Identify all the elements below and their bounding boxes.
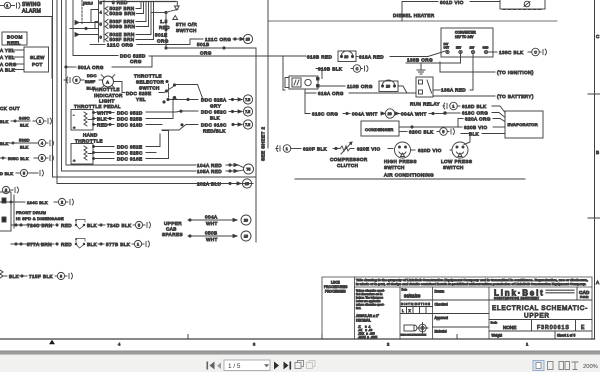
wire 110B ORG fuse 20 xyxy=(319,80,415,93)
svg-text:Unless otherwise speci-: Unless otherwise speci- xyxy=(356,289,385,293)
svg-text:fied.: fied. xyxy=(356,306,361,310)
svg-text:501B: 501B xyxy=(197,42,210,47)
svg-text:C: C xyxy=(534,50,537,54)
svg-text:618D BLK: 618D BLK xyxy=(462,104,487,109)
svg-text:BLK: BLK xyxy=(9,274,20,279)
svg-text:UPPER: UPPER xyxy=(164,221,182,226)
svg-text:1.5: 1.5 xyxy=(160,19,168,24)
wire 138A RED xyxy=(433,54,473,93)
svg-text:-: - xyxy=(73,112,75,117)
prev page button xyxy=(217,363,221,370)
svg-text:1: 1 xyxy=(39,119,41,123)
svg-text:5: 5 xyxy=(442,130,444,134)
weight row xyxy=(489,331,592,339)
svg-text:ANGULAR ± 1°: ANGULAR ± 1° xyxy=(356,314,380,318)
svg-text:OUT: OUT xyxy=(444,46,450,50)
svg-text:.X ± .1: .X ± .1 xyxy=(358,325,371,329)
svg-text:DISTRIBUTION: DISTRIBUTION xyxy=(401,302,430,306)
wire 1.5 RED xyxy=(159,13,170,49)
diesel heater glow plug box xyxy=(500,0,545,10)
svg-text:801D VIO: 801D VIO xyxy=(440,0,464,5)
svg-text:505C BLK: 505C BLK xyxy=(8,156,29,161)
svg-text:619A ORG: 619A ORG xyxy=(318,91,344,96)
center fold wire xyxy=(267,0,269,148)
svg-text:COMPRESSOR: COMPRESSOR xyxy=(330,157,368,162)
wire to pin row C xyxy=(75,33,99,37)
svg-text:620A ORG: 620A ORG xyxy=(465,117,491,122)
svg-text:CAB: CAB xyxy=(166,227,177,232)
wire 503F BRN lower xyxy=(105,2,154,42)
svg-text:105A RED: 105A RED xyxy=(197,169,222,174)
svg-text:POT: POT xyxy=(32,62,43,67)
boom reel enclosure wire xyxy=(0,17,52,79)
svg-text:+: + xyxy=(73,158,76,163)
svg-text:577B BLK: 577B BLK xyxy=(106,242,131,247)
wire 577A BRN resistor 577B BLK xyxy=(11,238,149,248)
wire 501E ORG xyxy=(155,33,169,50)
svg-text:6 RED: 6 RED xyxy=(112,0,128,5)
svg-text:138C BLK: 138C BLK xyxy=(499,50,524,55)
svg-text:Weight: Weight xyxy=(492,334,502,338)
svg-text:5: 5 xyxy=(138,223,140,227)
slew pot box xyxy=(24,47,49,72)
svg-text:WHT: WHT xyxy=(206,221,218,226)
wire 202A BLU xyxy=(57,179,252,188)
svg-text:3: 3 xyxy=(100,0,103,5)
svg-text:5: 5 xyxy=(23,171,25,175)
svg-text:104A RED: 104A RED xyxy=(197,163,222,168)
snapshot tool icon xyxy=(295,361,304,369)
svg-text:A BLK: A BLK xyxy=(0,68,16,73)
svg-text:525F: 525F xyxy=(85,79,96,84)
wire DDC 916C RED/BLK xyxy=(162,120,253,134)
svg-text:BLK: BLK xyxy=(87,242,98,247)
svg-text:DDC 952D: DDC 952D xyxy=(117,111,143,116)
next page button xyxy=(274,362,279,370)
single page view icon active xyxy=(533,361,544,371)
svg-text:FRONT DRUM: FRONT DRUM xyxy=(16,210,46,215)
svg-text:RED: RED xyxy=(61,242,72,247)
svg-text:DDC 916C: DDC 916C xyxy=(201,123,227,128)
svg-text:in whole or in part, of design: in whole or in part, of design and detai… xyxy=(356,282,586,286)
wire 618C ORG right xyxy=(305,93,505,118)
fit width icon xyxy=(572,362,579,370)
svg-text:DDC 916E: DDC 916E xyxy=(117,157,143,162)
switch 5TH O/R xyxy=(151,2,179,20)
selector switch contacts xyxy=(163,80,176,103)
svg-text:SWITCH: SWITCH xyxy=(139,86,160,91)
bus wire 1 xyxy=(52,0,54,177)
relay box left edge xyxy=(0,192,14,231)
svg-text:BLK: BLK xyxy=(0,141,9,146)
svg-text:DDC 952C: DDC 952C xyxy=(201,110,227,115)
wire 503F BRN xyxy=(105,2,146,24)
svg-text:WHT: WHT xyxy=(97,111,109,116)
svg-text:below are applicable: below are applicable xyxy=(356,299,381,303)
wire 618B RED xyxy=(283,55,333,91)
svg-text:BLK: BLK xyxy=(469,132,480,137)
svg-text:538D: 538D xyxy=(19,138,30,143)
scale row xyxy=(489,320,592,332)
svg-text:20: 20 xyxy=(244,218,248,222)
svg-text:004A WHT: 004A WHT xyxy=(352,112,378,117)
svg-text:D BLK: D BLK xyxy=(0,171,13,176)
toolbar background xyxy=(0,355,600,372)
svg-text:AIR CONDITIONING: AIR CONDITIONING xyxy=(384,173,434,178)
svg-text:CLUTCH: CLUTCH xyxy=(337,163,358,168)
svg-text:618C ORG: 618C ORG xyxy=(312,112,338,117)
svg-text:ALARM: ALARM xyxy=(22,9,41,15)
wire 004A WHT spare xyxy=(188,215,251,227)
ground run relay coil xyxy=(417,63,425,74)
wire 503G BRN xyxy=(105,2,149,29)
wire DDC 525C xyxy=(95,151,157,156)
svg-text:SELECTOR: SELECTOR xyxy=(136,80,165,85)
svg-text:SPARES: SPARES xyxy=(162,232,183,237)
wire 620F BLK xyxy=(303,147,340,152)
svg-text:DDC 525D: DDC 525D xyxy=(120,54,146,59)
svg-text:C: C xyxy=(356,67,359,71)
svg-text:4: 4 xyxy=(41,141,43,145)
svg-text:620F BLK: 620F BLK xyxy=(303,147,328,152)
wire 121C ORG xyxy=(90,34,253,47)
svg-text:6: 6 xyxy=(100,35,103,40)
wire DDC 525A GRY xyxy=(167,95,253,109)
see sheet 2 border xyxy=(255,48,257,242)
svg-text:NONE: NONE xyxy=(503,325,516,330)
wire 715F BLK xyxy=(0,270,72,280)
wire DDC 916E xyxy=(95,131,169,162)
wire 620E VIO xyxy=(357,147,393,152)
diesel heater top wire xyxy=(268,20,557,22)
svg-text:7.5: 7.5 xyxy=(245,98,250,102)
svg-text:RED: RED xyxy=(97,123,108,128)
svg-text:138B ORG: 138B ORG xyxy=(407,58,433,63)
svg-text:REEL: REEL xyxy=(7,41,21,46)
svg-text:503G BRN: 503G BRN xyxy=(110,24,136,29)
svg-text:004A WHT: 004A WHT xyxy=(401,112,427,117)
svg-text:BLK: BLK xyxy=(210,116,221,121)
page number input xyxy=(224,360,270,371)
svg-text:501E: 501E xyxy=(155,33,168,38)
wire BLK DDC 525B xyxy=(95,98,174,122)
svg-text:inches. The tolerances: inches. The tolerances xyxy=(356,296,384,300)
connector J1 bars xyxy=(99,0,105,42)
svg-text:A YEL: A YEL xyxy=(0,48,15,53)
wire DDC 525E YEL xyxy=(114,82,167,102)
svg-text:619B BLK: 619B BLK xyxy=(318,67,343,72)
wire 105A RED xyxy=(197,169,244,174)
wire 349C BLK xyxy=(0,116,51,128)
distribution cell xyxy=(400,302,489,314)
svg-text:Drawn: Drawn xyxy=(435,290,445,294)
svg-text:+: + xyxy=(73,125,76,130)
wire 619B BLK xyxy=(316,65,368,79)
svg-text:1 / 5: 1 / 5 xyxy=(228,363,241,370)
link-belt logo xyxy=(494,287,577,300)
wire 134C BLK xyxy=(0,198,73,205)
svg-text:004A: 004A xyxy=(205,215,218,220)
svg-text:LBCE: LBCE xyxy=(331,281,340,285)
lbce processes cell xyxy=(324,281,348,294)
fuse 20A heater xyxy=(338,51,356,62)
converter box xyxy=(441,28,493,57)
svg-text:UPPER: UPPER xyxy=(524,313,550,320)
svg-text:SWING: SWING xyxy=(22,2,41,8)
svg-text:1: 1 xyxy=(6,4,8,8)
svg-text:121C ORG: 121C ORG xyxy=(107,43,133,48)
run relay box xyxy=(416,77,433,97)
svg-text:5: 5 xyxy=(100,22,103,27)
frame bottom wire xyxy=(53,176,257,178)
tolerance note cell xyxy=(356,289,385,340)
svg-text:.XXX ± .005: .XXX ± .005 xyxy=(358,332,375,336)
svg-text:1: 1 xyxy=(286,147,288,151)
svg-text:X: X xyxy=(409,309,412,313)
swing alarm node 1 xyxy=(0,2,20,8)
sheet right border xyxy=(594,0,596,339)
svg-text:620E VIO: 620E VIO xyxy=(357,147,381,152)
svg-text:ORG: ORG xyxy=(157,39,169,44)
low press switch xyxy=(452,142,468,158)
svg-text:202A BLU: 202A BLU xyxy=(197,182,221,187)
svg-text:ORG: ORG xyxy=(130,59,142,64)
svg-text:ELECTRICAL SCHEMATIC-: ELECTRICAL SCHEMATIC- xyxy=(492,305,588,312)
svg-text:1: 1 xyxy=(452,104,454,108)
svg-text:138A RED: 138A RED xyxy=(441,88,466,93)
svg-text:BLK: BLK xyxy=(20,123,29,128)
svg-text:050B: 050B xyxy=(205,231,218,236)
wire stubs left of connector xyxy=(91,10,99,29)
svg-text:618B RED: 618B RED xyxy=(307,55,333,60)
revision triangle marker xyxy=(49,340,55,344)
svg-text:PROCESSES: PROCESSES xyxy=(325,290,346,294)
wire RED DDC 916D xyxy=(95,123,163,128)
svg-text:HAND: HAND xyxy=(83,133,98,138)
cad cell xyxy=(579,290,590,299)
wire 801D VIO xyxy=(402,0,500,21)
indicator lamp xyxy=(101,75,115,89)
bus wire 2 xyxy=(57,0,253,184)
wire to battery xyxy=(433,94,534,99)
wire to ignition xyxy=(440,62,534,75)
svg-text:DIESEL HEATER: DIESEL HEATER xyxy=(393,13,435,18)
svg-text:RUN RELAY: RUN RELAY xyxy=(410,102,440,107)
svg-text:15: 15 xyxy=(246,37,250,41)
title electrical schematic upper xyxy=(489,300,592,320)
confidence note text xyxy=(356,278,588,286)
svg-text:DDC 525C: DDC 525C xyxy=(117,151,143,156)
svg-text:3: 3 xyxy=(75,78,77,82)
svg-text:A ORG: A ORG xyxy=(0,62,17,67)
svg-text:THROTTLE PEDAL: THROTTLE PEDAL xyxy=(74,104,121,109)
svg-text:A: A xyxy=(106,79,109,84)
svg-text:KEY: KEY xyxy=(456,46,462,50)
connector node 1 compressor xyxy=(276,145,301,153)
svg-text:BLK: BLK xyxy=(20,145,29,150)
wire 050B WHT spare xyxy=(188,231,251,243)
svg-text:618C ORG: 618C ORG xyxy=(462,111,488,116)
title block outline xyxy=(322,277,592,339)
wire DDC 525F BLK xyxy=(85,73,103,91)
svg-text:502G BRN: 502G BRN xyxy=(110,11,136,16)
svg-text:6: 6 xyxy=(60,274,62,278)
last page button xyxy=(284,362,292,370)
evaporator box xyxy=(505,111,543,138)
wire 620D VIO xyxy=(411,148,453,153)
svg-text:.XX ± .06: .XX ± .06 xyxy=(358,328,373,332)
svg-text:4: 4 xyxy=(100,10,103,15)
svg-text:5: 5 xyxy=(41,156,43,160)
wire 104A RED xyxy=(197,163,254,174)
svg-text:SEE SHEET 2: SEE SHEET 2 xyxy=(261,127,266,161)
wire DDC 952E xyxy=(95,134,161,150)
svg-text:1: 1 xyxy=(137,242,139,246)
wire 502E BRN xyxy=(105,2,151,37)
svg-text:134C BLK: 134C BLK xyxy=(27,200,48,205)
svg-text:SWITCH: SWITCH xyxy=(176,28,197,33)
svg-text:Approval: Approval xyxy=(435,316,449,320)
wire 620A ORG xyxy=(458,117,505,128)
hand throttle box xyxy=(71,144,95,165)
wire 620C BLK xyxy=(399,128,454,136)
svg-text:7.5: 7.5 xyxy=(245,110,250,114)
svg-text:F3R0061S: F3R0061S xyxy=(537,325,570,331)
svg-text:715F BLK: 715F BLK xyxy=(29,274,54,279)
heater unit box xyxy=(285,76,319,89)
svg-text:501A ORG: 501A ORG xyxy=(78,65,104,70)
svg-text:THROTTLE: THROTTLE xyxy=(75,139,103,144)
svg-text:200%: 200% xyxy=(583,364,598,370)
wire WHT DDC 952D xyxy=(95,110,199,115)
svg-text:DDC: DDC xyxy=(87,73,97,78)
compressor clutch coil xyxy=(340,142,354,154)
svg-text:SLEW: SLEW xyxy=(30,55,45,60)
svg-text:THROTTLE: THROTTLE xyxy=(92,87,120,92)
svg-text:CK OUT: CK OUT xyxy=(0,106,20,111)
svg-text:A YEL: A YEL xyxy=(0,55,15,60)
wire BLK evaporator xyxy=(461,132,505,145)
svg-text:12V: 12V xyxy=(470,46,475,50)
svg-text:INDICATOR: INDICATOR xyxy=(94,93,123,98)
svg-text:SWITCH: SWITCH xyxy=(384,165,405,170)
svg-text:(TO BATTERY): (TO BATTERY) xyxy=(497,94,534,99)
wire 138B ORG xyxy=(406,54,461,63)
two page view icon xyxy=(559,362,570,370)
first page button xyxy=(207,362,215,370)
connector node 5 xyxy=(2,186,18,193)
bus top merge wire xyxy=(100,1,176,3)
svg-text:THIRD ANGLE PROJECTION: THIRD ANGLE PROJECTION xyxy=(401,334,427,337)
svg-text:ORG: ORG xyxy=(200,51,212,56)
throttle pedal box xyxy=(71,110,95,131)
wire 505C BLK xyxy=(0,154,53,161)
svg-text:DDC 525B: DDC 525B xyxy=(117,117,143,122)
high press switch xyxy=(395,142,411,158)
wire 501B ORG xyxy=(166,42,256,56)
wire D BLK xyxy=(0,169,43,176)
wire to pin row A xyxy=(75,21,99,25)
svg-text:15: 15 xyxy=(244,234,248,238)
svg-text:HI SPD & DISENGAGE: HI SPD & DISENGAGE xyxy=(16,216,64,221)
svg-text:unless otherwise speci-: unless otherwise speci- xyxy=(356,303,384,307)
svg-text:5TH O/R: 5TH O/R xyxy=(176,22,198,27)
zone tick marks xyxy=(188,335,457,340)
svg-text:PROCEDURES: PROCEDURES xyxy=(324,285,348,289)
svg-text:618A RED: 618A RED xyxy=(359,55,384,60)
svg-text:110B ORG: 110B ORG xyxy=(347,84,373,89)
svg-text:DDC 952E: DDC 952E xyxy=(117,145,143,150)
svg-text:349C: 349C xyxy=(19,116,30,121)
svg-text:Checked: Checked xyxy=(435,303,448,307)
third angle projection cell xyxy=(401,323,490,337)
svg-text:Scale: Scale xyxy=(491,321,498,325)
svg-text:LOW PRESS: LOW PRESS xyxy=(441,159,472,164)
svg-text:BOOM: BOOM xyxy=(7,35,23,40)
svg-text:L: L xyxy=(402,309,404,313)
date cell xyxy=(400,288,489,301)
wire 618A RED xyxy=(356,50,448,59)
svg-text:DECIMAL: DECIMAL xyxy=(356,319,371,323)
svg-text:20: 20 xyxy=(388,112,392,116)
svg-text:20: 20 xyxy=(344,55,348,59)
svg-text:CONDENSER: CONDENSER xyxy=(365,127,394,132)
wire selector to right xyxy=(176,85,203,100)
svg-text:fied dimensions are in: fied dimensions are in xyxy=(356,292,383,296)
svg-text:(TO IGNITION): (TO IGNITION) xyxy=(497,70,534,75)
boom reel box xyxy=(2,32,27,45)
connector node 1 618D xyxy=(443,102,460,110)
wire to pin row B xyxy=(70,27,99,29)
svg-text:THROTTLE: THROTTLE xyxy=(134,74,162,79)
svg-text:BLK: BLK xyxy=(0,119,9,124)
svg-text:DDC 525E: DDC 525E xyxy=(126,91,152,96)
svg-text:C: C xyxy=(596,34,600,39)
svg-text:GRY: GRY xyxy=(210,104,221,109)
svg-text:15: 15 xyxy=(245,182,249,186)
continuous view icon xyxy=(548,362,554,370)
svg-text:7.5: 7.5 xyxy=(245,123,250,127)
svg-text:Sheet 1 of 5: Sheet 1 of 5 xyxy=(557,334,576,338)
svg-text:WHT: WHT xyxy=(206,237,218,242)
svg-text:12V TO 24V: 12V TO 24V xyxy=(455,35,474,39)
scrollbar band xyxy=(0,351,600,355)
wire 502G BRN xyxy=(105,2,144,16)
sheet bottom border xyxy=(0,338,595,340)
svg-text:This drawing is the property o: This drawing is the property of Link-Bel… xyxy=(356,278,588,282)
svg-text:BLK: BLK xyxy=(87,223,98,228)
svg-text:DDC 525A: DDC 525A xyxy=(201,98,227,103)
svg-text:75: 75 xyxy=(246,167,250,171)
svg-text:F-3043: F-3043 xyxy=(580,295,589,299)
wire 138C BLK xyxy=(488,48,547,56)
svg-text:RED: RED xyxy=(159,25,170,30)
svg-text:620B VIO: 620B VIO xyxy=(464,125,488,130)
svg-text:577A BRN: 577A BRN xyxy=(27,242,52,247)
wire 620B VIO xyxy=(399,125,505,130)
svg-text:20: 20 xyxy=(386,85,390,89)
wire 619A ORG xyxy=(305,89,415,96)
svg-text:RED/BLK: RED/BLK xyxy=(203,129,226,134)
svg-text:DDC 916D: DDC 916D xyxy=(117,123,143,128)
wire DDC 952C BLK xyxy=(201,107,253,121)
svg-text:YEL: YEL xyxy=(136,97,146,102)
svg-text:E: E xyxy=(581,325,585,331)
zone divider tick right edge xyxy=(588,94,600,218)
svg-text:A: A xyxy=(596,280,600,285)
wire DDC 525D ORG xyxy=(73,0,306,64)
svg-text:2: 2 xyxy=(61,200,63,204)
